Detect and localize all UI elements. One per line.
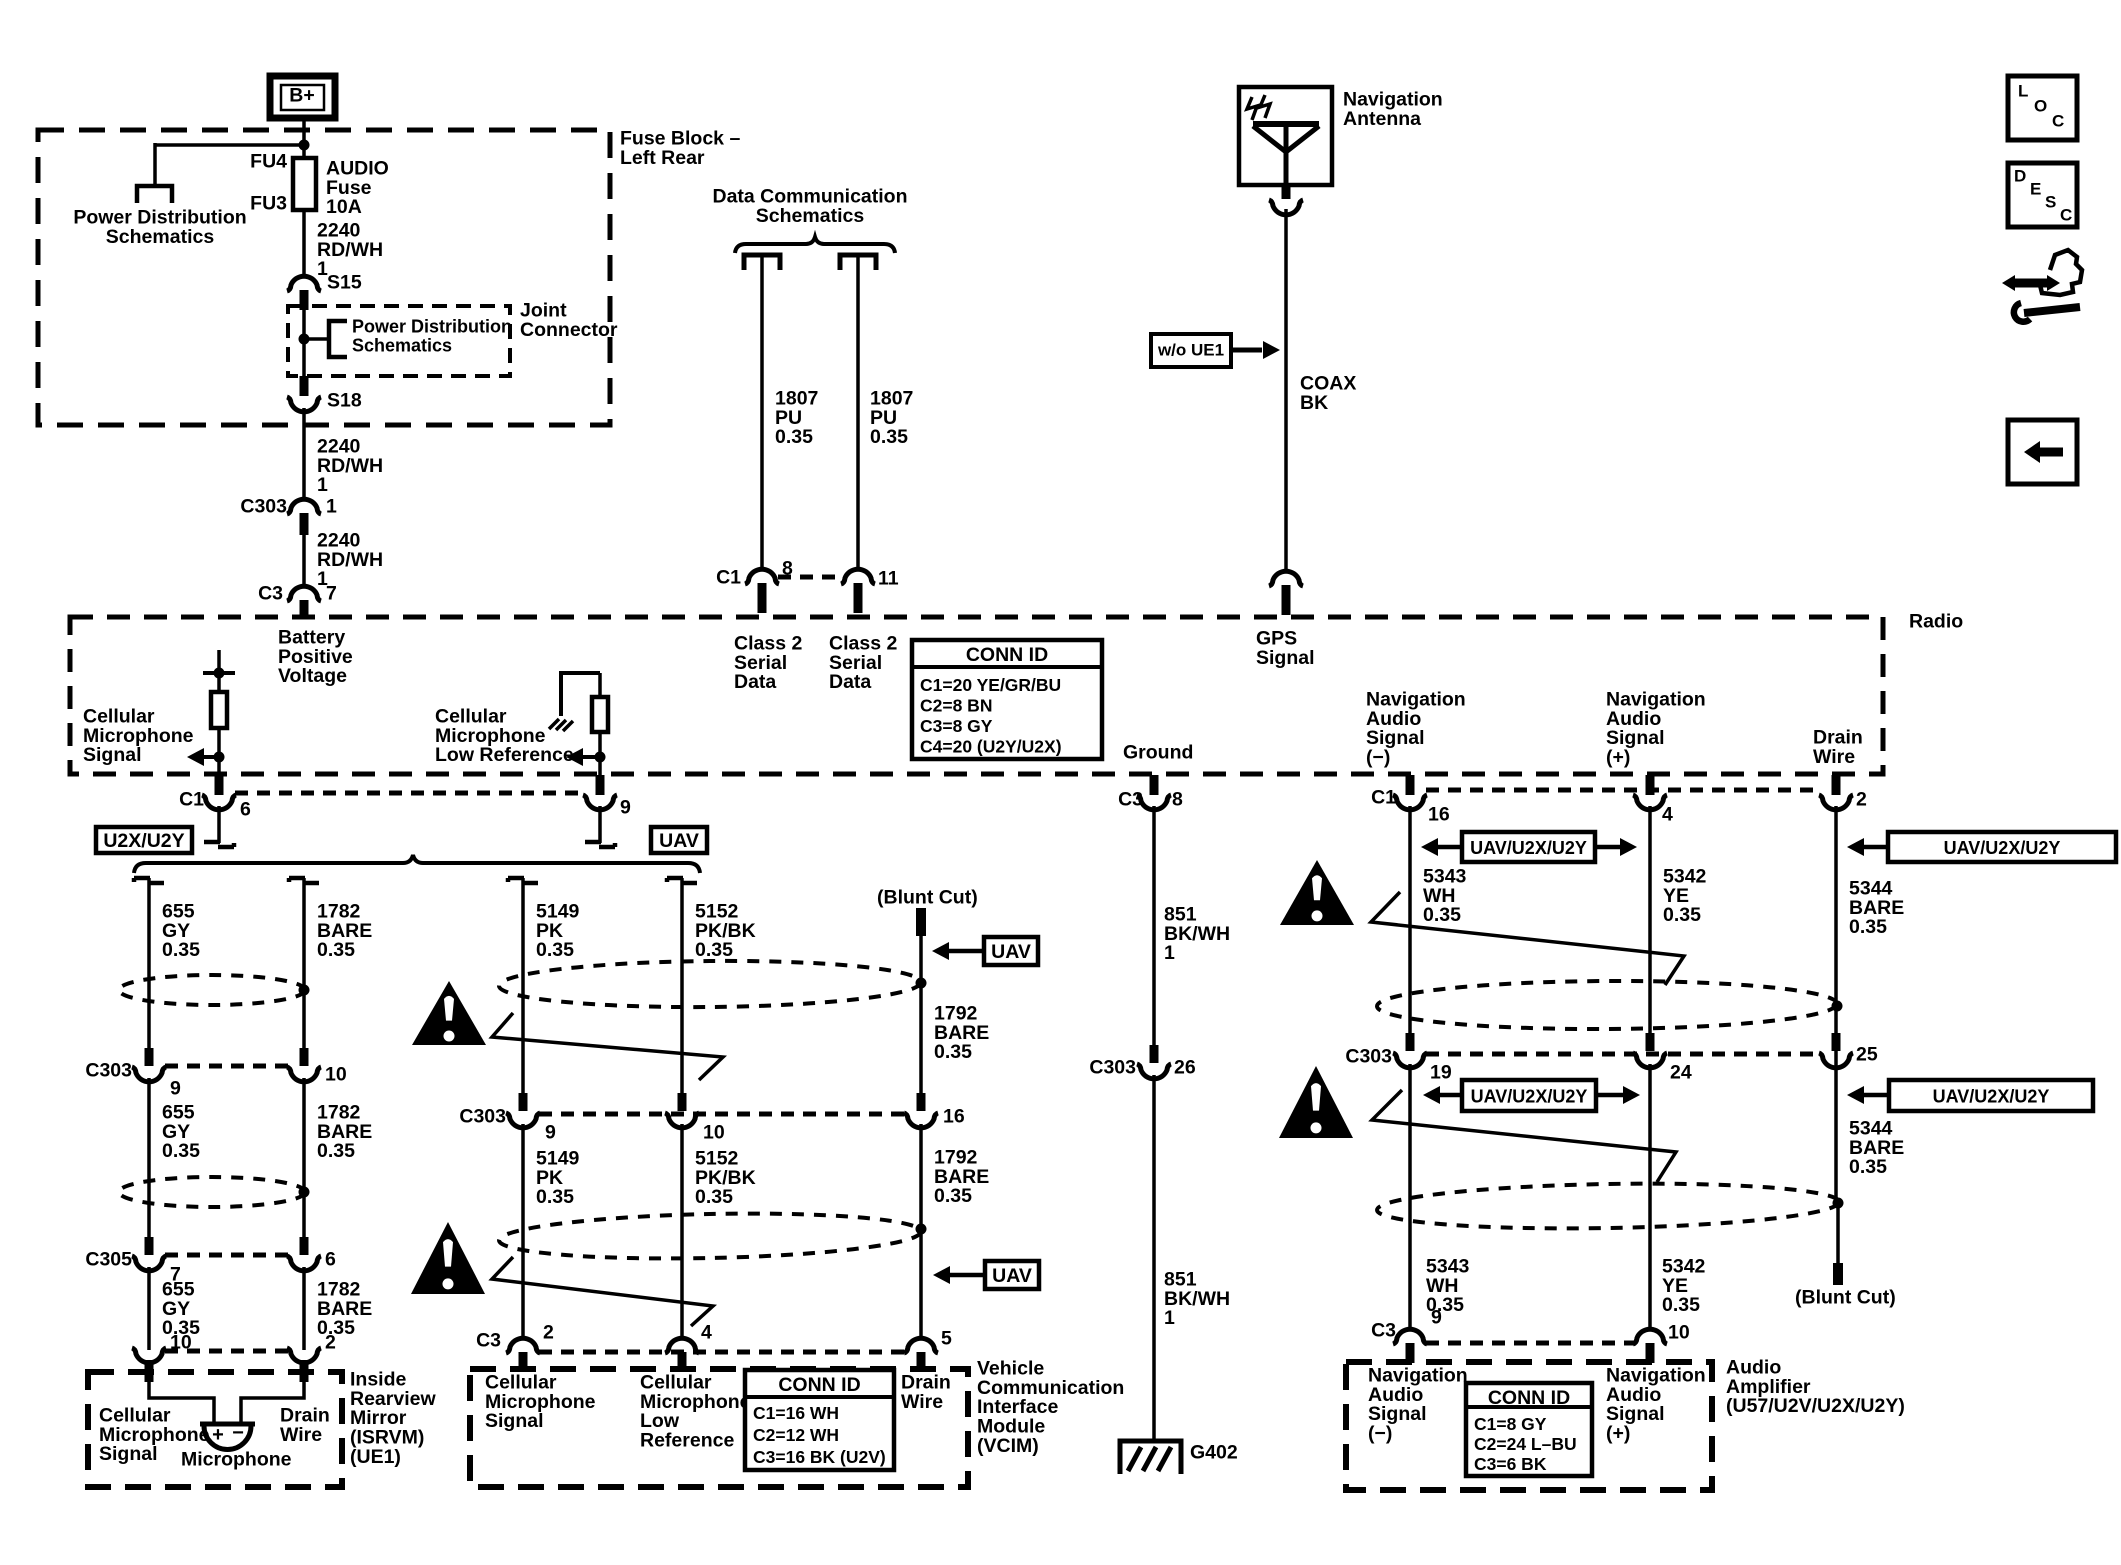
wire B+ to fuse FU4 xyxy=(302,118,306,160)
label FU3 xyxy=(250,192,287,214)
brace data communication xyxy=(735,237,895,253)
dashed link C303 9-10-16 xyxy=(539,1112,905,1117)
svg-text:C3: C3 xyxy=(258,582,283,604)
connector C1 pin 6 xyxy=(179,775,251,820)
wire 5343 WH upper xyxy=(1408,806,1412,1033)
connector C3 pin 9 (amp) xyxy=(1371,1306,1442,1363)
label Drain Wire (ISRVM) xyxy=(280,1404,330,1445)
label wire 5343 WH 0.35 (1) xyxy=(1423,865,1467,926)
svg-text:2: 2 xyxy=(1856,788,1867,810)
twisted pair ellipse mic mid lower xyxy=(499,1210,927,1263)
svg-text:11: 11 xyxy=(878,567,899,589)
flag box UAV (radio) xyxy=(651,827,707,853)
label GPS Signal xyxy=(1256,627,1315,668)
label Cellular Microphone Signal radio xyxy=(83,705,194,766)
svg-text:C1=8 GY: C1=8 GY xyxy=(1474,1414,1547,1434)
svg-text:G402: G402 xyxy=(1190,1441,1238,1463)
crossed-wire pointer nav 2 xyxy=(1372,1090,1676,1182)
connector C3 pin 8 xyxy=(1118,775,1183,810)
label wire 655 GY 0.35 (3) xyxy=(162,1278,200,1339)
crossed-wire pointer mic 1 xyxy=(492,1013,723,1080)
wire 655 GY upper xyxy=(134,878,164,1048)
svg-text:C303: C303 xyxy=(1345,1045,1392,1067)
svg-text:C2=24 L–BU: C2=24 L–BU xyxy=(1474,1434,1577,1454)
svg-text:16: 16 xyxy=(943,1105,965,1127)
junction dot joint connector xyxy=(299,334,310,345)
svg-text:16: 16 xyxy=(1428,803,1450,825)
label wire 1807 PU 0.35 right xyxy=(870,387,913,448)
svg-text:C303: C303 xyxy=(85,1059,132,1081)
label Cellular Microphone Low Reference radio xyxy=(435,705,574,766)
connector C1 pin 8 xyxy=(716,557,793,613)
inside rearview mirror dashed box xyxy=(88,1372,342,1487)
label wire 1807 PU 0.35 left xyxy=(775,387,818,448)
conn id table amp xyxy=(1466,1383,1592,1476)
wire mic signal into ISRVM xyxy=(149,1382,214,1424)
svg-text:(Blunt Cut): (Blunt Cut) xyxy=(877,886,978,908)
svg-text:9: 9 xyxy=(620,796,631,818)
twisted pair ellipse nav upper xyxy=(1377,980,1843,1030)
svg-text:C3=16 BK (U2V): C3=16 BK (U2V) xyxy=(753,1447,886,1467)
label Navigation Audio Signal (-) amp xyxy=(1368,1364,1468,1444)
connector ISRVM pin 10 xyxy=(132,1331,192,1382)
microphone symbol xyxy=(200,1422,255,1450)
svg-text:10: 10 xyxy=(703,1121,725,1143)
navigation antenna U.box xyxy=(1239,87,1332,185)
wire stub below C1-9 xyxy=(585,806,615,847)
flag w/o UE1 xyxy=(1151,334,1280,367)
flag UAV/U2X/U2Y row1 right xyxy=(1847,832,2116,862)
flag box U2X/U2Y xyxy=(96,827,192,853)
wire low reference to C1-9 xyxy=(598,757,602,777)
svg-text:4: 4 xyxy=(701,1321,712,1343)
wire 655 GY mid xyxy=(147,1078,151,1237)
warning triangle mic 2 xyxy=(411,1222,485,1294)
icon vehicle data arrows xyxy=(2002,250,2082,322)
svg-text:C1: C1 xyxy=(716,566,741,588)
flag box UAV (blunt cut) xyxy=(932,937,1038,965)
svg-text:C303: C303 xyxy=(240,495,287,517)
flag box UAV (vcim) xyxy=(933,1261,1039,1289)
svg-text:9: 9 xyxy=(1431,1306,1442,1328)
svg-text:2: 2 xyxy=(543,1321,554,1343)
splice S15 xyxy=(287,271,362,310)
label wire 5152 PK/BK 0.35 (1) xyxy=(695,900,756,961)
svg-text:2: 2 xyxy=(325,1331,336,1353)
svg-text:Radio: Radio xyxy=(1909,610,1963,632)
svg-text:UAV/U2X/U2Y: UAV/U2X/U2Y xyxy=(1944,838,2061,858)
label wire 2240 RD/WH 1 (a) xyxy=(317,219,383,280)
svg-text:L: L xyxy=(2018,82,2028,101)
svg-text:5: 5 xyxy=(941,1327,952,1349)
svg-text:UAV/U2X/U2Y: UAV/U2X/U2Y xyxy=(1471,1087,1588,1107)
wire branch to power distribution xyxy=(155,143,304,186)
svg-text:w/o UE1: w/o UE1 xyxy=(1157,341,1224,360)
connector C305 pin 7 xyxy=(85,1237,180,1285)
label Radio xyxy=(1909,610,1963,632)
svg-text:C1: C1 xyxy=(1371,786,1396,808)
svg-text:UAV/U2X/U2Y: UAV/U2X/U2Y xyxy=(1933,1087,2050,1107)
label wire 655 GY 0.35 (1) xyxy=(162,900,200,961)
svg-text:+: + xyxy=(212,1424,224,1446)
label wire 5343 WH 0.35 (2) xyxy=(1426,1255,1470,1316)
connector C3 pin 10 (amp) xyxy=(1633,1321,1690,1363)
connector C1 pin 4 xyxy=(1633,775,1673,825)
svg-text:24: 24 xyxy=(1670,1061,1692,1083)
crossed-wire pointer nav 1 xyxy=(1371,892,1684,985)
vehicle communication interface module dashed box xyxy=(470,1369,968,1487)
svg-text:D: D xyxy=(2014,167,2026,186)
twisted pair ellipse mic mid upper xyxy=(499,959,927,1009)
label wire 655 GY 0.35 (2) xyxy=(162,1101,200,1162)
wire 5343 WH lower xyxy=(1408,1064,1412,1329)
connector C3 pin 2 (vcim) xyxy=(476,1321,554,1372)
label COAX BK xyxy=(1300,372,1356,413)
label Class 2 Serial Data left xyxy=(734,632,802,693)
svg-text:(Blunt Cut): (Blunt Cut) xyxy=(1795,1286,1896,1308)
label wire 5344 BARE 0.35 (1) xyxy=(1849,877,1904,938)
svg-text:C3=8 GY: C3=8 GY xyxy=(920,716,993,736)
label Drain Wire radio xyxy=(1813,726,1863,767)
connector C303 pin 19 xyxy=(1345,1033,1451,1083)
label Power Distribution Schematics (joint) xyxy=(352,316,512,355)
connector C303 pin 16 (drain) xyxy=(904,1093,965,1128)
wire class 2 serial data right xyxy=(856,255,860,570)
resistor cellular microphone low reference xyxy=(549,671,608,757)
svg-text:6: 6 xyxy=(240,798,251,820)
dashed link C1 pins 8-11 xyxy=(778,575,842,580)
connector antenna lead xyxy=(1269,185,1303,215)
dashed link C1 16-4-2 xyxy=(1426,788,1820,793)
svg-text:S15: S15 xyxy=(327,271,362,293)
fuse block dashed box xyxy=(38,130,610,425)
fuse AUDIO 10A xyxy=(293,158,316,210)
label Data Communication Schematics xyxy=(712,185,907,226)
label wire 1782 BARE 0.35 (1) xyxy=(317,900,372,961)
dashed link C1 6-9 xyxy=(235,791,584,796)
svg-text:FU4: FU4 xyxy=(250,150,287,172)
connector C305 pin 6 xyxy=(287,1237,336,1271)
dashed link C303 9-10 mic xyxy=(165,1064,288,1069)
label Cellular Microphone Signal (VCIM) xyxy=(485,1371,596,1432)
dashed link C305 7-6 xyxy=(165,1253,288,1258)
wire 1782 BARE mid xyxy=(302,1078,306,1237)
label wire 1792 BARE 0.35 (2) xyxy=(934,1146,989,1207)
svg-text:FU3: FU3 xyxy=(250,192,287,214)
svg-text:6: 6 xyxy=(325,1248,336,1270)
label wire 2240 RD/WH 1 (b) xyxy=(317,435,383,496)
connector GPS lead xyxy=(1269,571,1303,615)
label Inside Rearview Mirror (ISRVM) (UE1) xyxy=(350,1368,436,1468)
label Ground xyxy=(1123,741,1193,763)
wire mic signal to C1-6 xyxy=(217,757,221,777)
label wire 1782 BARE 0.35 (2) xyxy=(317,1101,372,1162)
radio dashed box xyxy=(70,617,1883,774)
label Drain Wire (VCIM) xyxy=(901,1371,951,1412)
joint connector dashed box xyxy=(288,306,510,376)
label Cellular Microphone Low Reference (VCIM) xyxy=(640,1371,751,1451)
svg-text:Microphone: Microphone xyxy=(181,1448,292,1470)
wire to bracket xyxy=(304,337,328,341)
wire 5152 PK/BK lower xyxy=(680,1124,684,1339)
dashed link C3 2-4-5 xyxy=(539,1350,905,1355)
wire fuse to S15 xyxy=(302,210,306,277)
svg-text:C4=20 (U2Y/U2X): C4=20 (U2Y/U2X) xyxy=(920,737,1062,757)
arrow cellular microphone low reference xyxy=(566,748,606,766)
label wire 5152 PK/BK 0.35 (2) xyxy=(695,1147,756,1208)
blunt cut drain wire bottom xyxy=(1795,1203,1896,1308)
connector C3 pin 5 (vcim) xyxy=(904,1327,952,1372)
conn id table VCIM xyxy=(745,1370,894,1470)
svg-text:CONN ID: CONN ID xyxy=(778,1374,860,1396)
label Class 2 Serial Data right xyxy=(829,632,897,693)
svg-text:S18: S18 xyxy=(327,389,362,411)
dashed link C303 19-24-25 xyxy=(1426,1052,1820,1057)
svg-text:4: 4 xyxy=(1662,803,1673,825)
warning triangle mic 1 xyxy=(412,981,486,1045)
svg-text:UAV: UAV xyxy=(992,1265,1032,1287)
svg-text:C3: C3 xyxy=(1118,788,1143,810)
label wire 851 BK/WH 1 (2) xyxy=(1164,1268,1230,1329)
label Navigation Audio Signal (+) amp xyxy=(1606,1364,1706,1444)
wire ground radio to C303 xyxy=(1152,806,1156,1045)
label wire 851 BK/WH 1 (1) xyxy=(1164,903,1230,964)
label Microphone xyxy=(181,1448,292,1470)
connector C303 pin 9 (mic) xyxy=(85,1048,181,1099)
flag UAV/U2X/U2Y row1 mid xyxy=(1421,832,1637,862)
warning triangle nav 2 xyxy=(1279,1066,1353,1138)
wire 1782 BARE lower xyxy=(302,1267,306,1350)
svg-text:C1=16 WH: C1=16 WH xyxy=(753,1403,839,1423)
dashed link ISRVM 10-2 xyxy=(165,1349,288,1354)
svg-text:8: 8 xyxy=(1172,788,1183,810)
label wire 5342 YE 0.35 (2) xyxy=(1662,1255,1706,1316)
audio amplifier dashed box xyxy=(1346,1362,1712,1490)
label wire 2240 RD/WH 1 (c) xyxy=(317,529,383,590)
wire through joint connector xyxy=(302,310,306,378)
label wire 1792 BARE 0.35 (1) xyxy=(934,1002,989,1063)
svg-text:7: 7 xyxy=(326,582,337,604)
svg-text:C2=12 WH: C2=12 WH xyxy=(753,1425,839,1445)
twisted pair ellipse mic left upper xyxy=(119,975,310,1005)
svg-text:25: 25 xyxy=(1856,1043,1878,1065)
label Battery Positive Voltage xyxy=(278,626,353,687)
icon back arrow box xyxy=(2008,420,2077,484)
label Cellular Microphone Signal (ISRVM) xyxy=(99,1404,210,1465)
wire class 2 serial data left xyxy=(760,255,764,570)
svg-text:26: 26 xyxy=(1174,1056,1196,1078)
wire 5342 YE upper xyxy=(1648,806,1652,1033)
connector C303 pin 9 (vcim) xyxy=(459,1093,556,1143)
svg-text:C305: C305 xyxy=(85,1248,132,1270)
blunt cut drain wire top xyxy=(877,886,978,1093)
connector C3 pin 7 xyxy=(258,582,337,618)
off-page bracket joint connector xyxy=(329,321,347,357)
wire 5149 PK lower xyxy=(521,1124,525,1339)
dashed link C3 9-10 amp xyxy=(1426,1341,1634,1346)
svg-text:9: 9 xyxy=(545,1121,556,1143)
svg-text:10: 10 xyxy=(325,1063,347,1085)
label wire 5342 YE 0.35 (1) xyxy=(1663,865,1707,926)
wire 655 GY lower xyxy=(147,1267,151,1350)
conn id table radio C1-C4 xyxy=(912,640,1102,759)
label wire 1782 BARE 0.35 (3) xyxy=(317,1278,372,1339)
node B+ battery positive terminal xyxy=(270,76,335,118)
svg-text:C1: C1 xyxy=(179,788,204,810)
wire S18 to C303 xyxy=(302,408,306,500)
connector C1 pin 9 xyxy=(583,775,631,818)
label Navigation Audio Signal (+) radio xyxy=(1606,688,1706,768)
connector C303 pin 24 xyxy=(1633,1033,1692,1083)
svg-text:19: 19 xyxy=(1430,1061,1452,1083)
connector C3 pin 4 (vcim) xyxy=(665,1321,712,1372)
wire 5152 PK/BK upper xyxy=(667,878,697,1093)
wire 1782 BARE upper xyxy=(289,878,319,1048)
terminal clip class2 left xyxy=(744,255,780,270)
svg-text:CONN ID: CONN ID xyxy=(966,644,1048,666)
connector C1 pin 16 xyxy=(1371,775,1450,825)
splice S18 xyxy=(287,376,362,412)
flag UAV/U2X/U2Y row2 mid xyxy=(1423,1080,1640,1111)
connector C1 pin 11 xyxy=(841,567,899,613)
connector C303 pin 25 xyxy=(1819,1033,1878,1068)
resistor cellular microphone signal xyxy=(203,650,235,757)
wire C303 to C3 xyxy=(302,530,306,588)
svg-text:O: O xyxy=(2034,97,2047,116)
label Power Distribution Schematics (fuse block) xyxy=(73,206,246,247)
ground G402 xyxy=(1120,1441,1238,1474)
connector C303 pin 1 xyxy=(240,495,337,535)
junction dot battery feed branch xyxy=(299,140,310,151)
connector C303 pin 10 (mic) xyxy=(287,1048,347,1085)
wire 5149 PK upper xyxy=(508,878,538,1093)
svg-text:S: S xyxy=(2045,193,2056,212)
svg-text:B+: B+ xyxy=(289,84,314,106)
terminal clip class2 right xyxy=(840,255,876,270)
svg-text:C3: C3 xyxy=(1371,1319,1396,1341)
wire drain into ISRVM xyxy=(241,1382,304,1424)
wire ground C303 to G402 xyxy=(1152,1075,1156,1440)
wire COAX antenna to radio xyxy=(1284,209,1288,572)
svg-text:BatteryPositiveVoltage: BatteryPositiveVoltage xyxy=(278,626,353,687)
label Navigation Antenna xyxy=(1343,88,1443,129)
label Joint Connector xyxy=(520,299,618,340)
icon DESC box xyxy=(2008,163,2077,227)
label wire 5149 PK 0.35 (2) xyxy=(536,1147,580,1208)
arrow cellular microphone signal xyxy=(187,748,225,766)
wire 1792 BARE lower xyxy=(919,1124,923,1339)
label Fuse Block - Left Rear xyxy=(620,127,740,168)
warning triangle nav 1 xyxy=(1280,860,1354,925)
connector C1 pin 2 xyxy=(1819,775,1867,810)
label Vehicle Communication Interface Module (VCIM) xyxy=(977,1357,1124,1457)
svg-text:UAV: UAV xyxy=(659,830,699,852)
svg-text:C: C xyxy=(2060,206,2072,225)
svg-text:C3=6 BK: C3=6 BK xyxy=(1474,1454,1547,1474)
label wire 5149 PK 0.35 (1) xyxy=(536,900,580,961)
svg-text:UAV/U2X/U2Y: UAV/U2X/U2Y xyxy=(1470,838,1587,858)
svg-text:9: 9 xyxy=(170,1077,181,1099)
svg-text:C: C xyxy=(2052,112,2064,131)
twisted pair ellipse mic left lower xyxy=(119,1177,310,1207)
svg-text:C303: C303 xyxy=(1089,1056,1136,1078)
svg-text:−: − xyxy=(232,1422,244,1444)
svg-text:C1=20 YE/GR/BU: C1=20 YE/GR/BU xyxy=(920,675,1061,695)
flag UAV/U2X/U2Y row2 right xyxy=(1847,1080,2093,1111)
svg-text:C2=8 BN: C2=8 BN xyxy=(920,696,992,716)
label Audio Amplifier (U57/U2V/U2X/U2Y) xyxy=(1726,1356,1905,1417)
svg-text:C303: C303 xyxy=(459,1105,506,1127)
svg-text:E: E xyxy=(2030,180,2041,199)
svg-text:C3: C3 xyxy=(476,1329,501,1351)
svg-text:1: 1 xyxy=(326,495,337,517)
wire 5342 YE lower xyxy=(1648,1064,1652,1329)
label wire 5344 BARE 0.35 (2) xyxy=(1849,1117,1904,1178)
label AUDIO Fuse 10A xyxy=(326,157,389,218)
connector ISRVM pin 2 xyxy=(287,1331,336,1382)
svg-text:U2X/U2Y: U2X/U2Y xyxy=(103,830,184,852)
label FU4 xyxy=(250,150,287,172)
twisted pair ellipse nav lower xyxy=(1377,1180,1844,1232)
off-page bracket power distribution xyxy=(137,186,172,203)
svg-text:UAV: UAV xyxy=(991,941,1031,963)
icon LOC box xyxy=(2008,76,2077,140)
wire stub below C1-6 xyxy=(204,806,234,847)
connector C303 pin 26 xyxy=(1089,1045,1195,1079)
brace microphone harness xyxy=(134,855,700,873)
wire 5344 BARE upper xyxy=(1834,806,1838,1203)
svg-text:Ground: Ground xyxy=(1123,741,1193,763)
svg-text:10: 10 xyxy=(1668,1321,1690,1343)
connector C303 pin 10 (vcim) xyxy=(665,1093,725,1143)
crossed-wire pointer mic 2 xyxy=(492,1257,713,1326)
label Navigation Audio Signal (-) radio xyxy=(1366,688,1466,768)
